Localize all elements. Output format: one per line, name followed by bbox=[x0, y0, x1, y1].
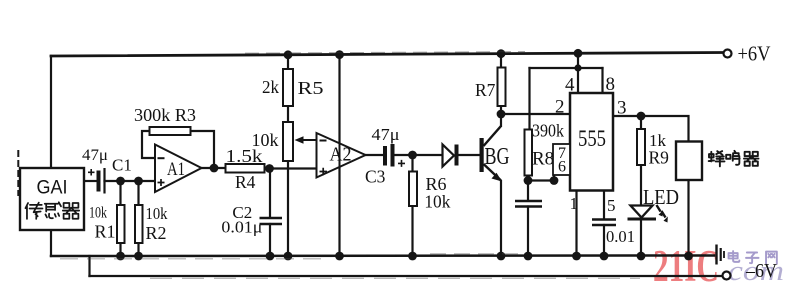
node C1 to R1 junction bbox=[116, 177, 125, 186]
ground symbol bbox=[717, 245, 725, 265]
node C3 to R6 junction bbox=[408, 151, 417, 160]
wire R6 bottom lead bbox=[411, 206, 413, 256]
svg-text:A2: A2 bbox=[330, 144, 352, 166]
node supply header junction bbox=[574, 64, 581, 71]
diode D1 bbox=[443, 145, 459, 167]
node ground rail LED junction bbox=[637, 252, 646, 261]
svg-text:10k: 10k bbox=[424, 192, 450, 212]
svg-text:3: 3 bbox=[617, 98, 627, 119]
svg-text:A1: A1 bbox=[167, 159, 185, 180]
node ground rail vertical junction bbox=[335, 252, 344, 261]
wire R4 to A2 plus input bbox=[265, 167, 317, 169]
svg-text:0.01μ: 0.01μ bbox=[221, 218, 262, 237]
node ground rail R1 junction bbox=[116, 252, 125, 261]
wire R7 top lead bbox=[500, 54, 502, 68]
svg-text:4: 4 bbox=[565, 75, 575, 96]
resistor R8 390k bbox=[525, 121, 565, 176]
svg-text:2: 2 bbox=[555, 97, 565, 118]
svg-text:47μ: 47μ bbox=[82, 147, 108, 164]
svg-text:10k: 10k bbox=[252, 130, 279, 150]
wire left drop from top rail to GA1 bbox=[50, 56, 52, 168]
node ground rail potentiometer junction bbox=[284, 252, 293, 261]
wire R6 top lead bbox=[411, 155, 413, 172]
svg-text:300k R3: 300k R3 bbox=[134, 105, 196, 125]
wire potentiometer bottom lead bbox=[287, 161, 289, 256]
wire R3 right to A1 output bbox=[191, 131, 215, 168]
wire R8 bottom node bbox=[527, 176, 529, 201]
resistor R6 10k bbox=[409, 172, 450, 212]
transistor BG bbox=[480, 114, 510, 256]
svg-text:+6V: +6V bbox=[738, 42, 771, 66]
svg-text:R5: R5 bbox=[298, 78, 324, 98]
svg-text:2k: 2k bbox=[262, 77, 279, 97]
svg-text:390k: 390k bbox=[532, 121, 564, 141]
svg-text:R7: R7 bbox=[475, 80, 496, 100]
wire buzzer bottom lead bbox=[687, 180, 689, 256]
wire R1 bottom lead bbox=[119, 243, 121, 256]
capacitor C2 0.01u bbox=[221, 203, 282, 237]
wire pin 3 output line bbox=[613, 116, 689, 142]
wire ground rail (middle bottom rail) bbox=[51, 254, 714, 257]
node ground rail buzzer junction bbox=[684, 252, 693, 261]
node ground rail C2 junction bbox=[266, 252, 275, 261]
label 传感器 (sensor) bbox=[25, 202, 79, 219]
sensor GA1 box bbox=[20, 168, 84, 230]
label 蜂鸣器 (buzzer) bbox=[709, 151, 759, 167]
resistor R7 bbox=[475, 68, 506, 107]
resistor R4 1.5k bbox=[226, 146, 265, 192]
svg-text:GAI: GAI bbox=[37, 178, 68, 199]
svg-text:R1: R1 bbox=[95, 222, 116, 242]
svg-text:1: 1 bbox=[570, 194, 579, 213]
svg-text:C3: C3 bbox=[365, 167, 386, 187]
node pins 7-6 junction bbox=[550, 176, 559, 185]
wire diode to BG base bbox=[457, 154, 480, 156]
svg-text:6: 6 bbox=[558, 159, 566, 176]
svg-text:555: 555 bbox=[578, 126, 606, 151]
svg-text:0.01: 0.01 bbox=[606, 227, 635, 246]
wire R5 to potentiometer bbox=[287, 106, 289, 122]
wire pin2 line from BG collector to 555 bbox=[501, 113, 570, 115]
node ground rail emitter junction bbox=[497, 252, 506, 261]
scan artifact line bbox=[17, 150, 19, 196]
svg-text:10k: 10k bbox=[89, 205, 107, 222]
wire R7 bottom lead bbox=[500, 106, 502, 114]
wire pin 5 lead bbox=[603, 191, 605, 220]
capacitor timing (below R8) bbox=[515, 201, 542, 207]
node ground rail pin1 junction bbox=[572, 252, 581, 261]
svg-text:–6V: –6V bbox=[745, 260, 777, 282]
svg-text:R9: R9 bbox=[649, 148, 670, 168]
wire R2 top lead bbox=[137, 181, 139, 205]
wire C1 to A1 plus input bbox=[105, 180, 156, 182]
wire R1 top lead bbox=[119, 181, 121, 205]
node R4 output junction bbox=[265, 164, 274, 173]
svg-text:R8: R8 bbox=[532, 149, 554, 170]
node R8 bottom junction bbox=[524, 176, 533, 185]
wire A1 inverting input feedback bbox=[142, 131, 155, 158]
wire pin 8 lead bbox=[601, 68, 603, 93]
svg-text:5: 5 bbox=[607, 196, 616, 215]
resistor R3 300k feedback bbox=[134, 105, 196, 135]
wire timing cap bottom lead bbox=[527, 207, 529, 257]
wire C2 top lead bbox=[269, 169, 271, 218]
wire R8 bottom to pins 7-6 bbox=[528, 179, 554, 181]
node ground rail pin5 cap junction bbox=[600, 252, 609, 261]
wire pin 1 lead bbox=[575, 191, 577, 257]
LED bbox=[628, 185, 680, 223]
wire pins 4-8 header bbox=[530, 67, 603, 69]
wire 555 supply drop bbox=[577, 53, 579, 93]
node pin2 collector junction bbox=[497, 110, 506, 119]
watermark 电子网 bbox=[729, 251, 777, 264]
node ground rail R6 junction bbox=[408, 252, 417, 261]
resistor R2 10k bbox=[135, 204, 168, 243]
wire stub joining rails bbox=[88, 256, 90, 276]
wire GA1 output to C1 bbox=[84, 180, 96, 182]
node pin3 R9 junction bbox=[637, 112, 646, 121]
capacitor C3 47u electrolytic bbox=[365, 125, 405, 187]
wire rail-to-ground vertical bbox=[338, 55, 340, 257]
node top rail 555 supply junction bbox=[574, 49, 583, 58]
wire bottom -6V rail bbox=[90, 275, 723, 277]
wire C3 to diode bbox=[394, 154, 441, 156]
node A1 output junction bbox=[210, 164, 219, 173]
wire pin5 cap bottom lead bbox=[603, 225, 605, 256]
wire LED bottom lead bbox=[640, 219, 642, 257]
svg-text:R4: R4 bbox=[235, 172, 256, 192]
potentiometer 10k bbox=[252, 122, 317, 161]
node top rail R5 junction bbox=[284, 50, 293, 59]
node ground rail timing cap junction bbox=[524, 252, 533, 261]
wire pins 7-6 box lead bbox=[553, 175, 555, 181]
node ground rail R2 junction bbox=[134, 252, 143, 261]
node top rail R7 junction bbox=[497, 49, 506, 58]
op-amp A2 bbox=[317, 133, 366, 178]
wire R5 top lead bbox=[287, 55, 289, 69]
resistor R9 1k bbox=[637, 129, 669, 168]
svg-text:8: 8 bbox=[606, 74, 616, 95]
pins 7-6 box bbox=[553, 144, 570, 176]
svg-text:LED: LED bbox=[643, 185, 679, 209]
terminal -6V bbox=[723, 260, 778, 282]
svg-text:47μ: 47μ bbox=[372, 125, 400, 144]
wire crossing A2 (rail-to-ground vertical over symbol) bbox=[339, 135, 341, 176]
svg-text:BG: BG bbox=[485, 144, 510, 170]
capacitor C1 47u electrolytic bbox=[82, 147, 132, 194]
svg-text:C1: C1 bbox=[112, 156, 132, 175]
wire A1 output to R4 bbox=[202, 167, 226, 169]
wire R9 top lead bbox=[640, 116, 642, 129]
wire R9 to LED bbox=[640, 165, 642, 205]
svg-text:21IC: 21IC bbox=[653, 241, 719, 291]
IC 555 timer bbox=[570, 93, 613, 191]
wire GA1 bottom lead bbox=[50, 230, 52, 256]
wire A2 output to C3 bbox=[366, 154, 385, 156]
wire R8 top lead to supply header bbox=[528, 68, 530, 130]
node top rail vertical junction bbox=[335, 50, 344, 59]
terminal +6V bbox=[724, 42, 771, 66]
node C1 to R2 junction bbox=[134, 177, 143, 186]
op-amp A1 bbox=[155, 145, 202, 193]
wire R2 bottom lead bbox=[137, 243, 139, 256]
svg-text:10k: 10k bbox=[146, 204, 168, 223]
capacitor 0.01 (pin 5) bbox=[592, 220, 635, 247]
wire C2 bottom lead bbox=[269, 224, 271, 256]
resistor R1 10k bbox=[89, 205, 125, 244]
svg-text:R2: R2 bbox=[146, 223, 167, 243]
wire top +6V rail bbox=[51, 53, 724, 57]
buzzer box bbox=[676, 142, 702, 181]
resistor R5 2k bbox=[262, 69, 324, 106]
